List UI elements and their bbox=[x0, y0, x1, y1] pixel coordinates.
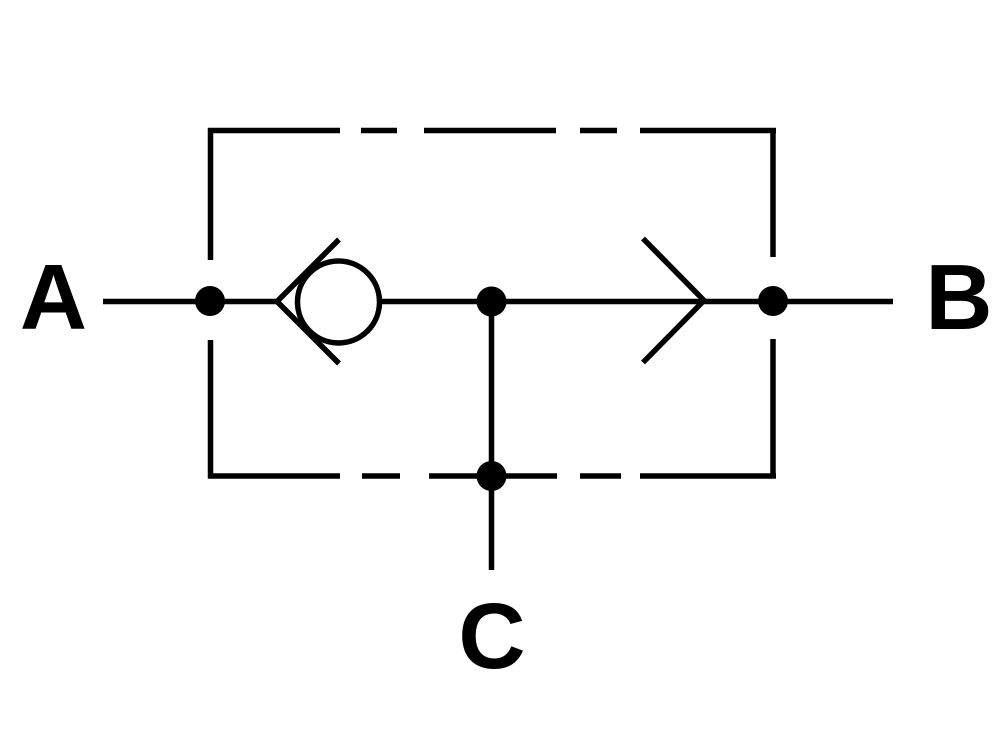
wire pilot line center node down to port C bbox=[489, 302, 495, 571]
enclosure right edge dashed bbox=[770, 128, 776, 479]
node junction at port A bbox=[195, 286, 225, 316]
node junction bottom pilot bbox=[477, 461, 507, 491]
enclosure bottom edge dashed bbox=[208, 473, 776, 479]
check valve V1 seat bbox=[277, 240, 339, 364]
svg-text:A: A bbox=[20, 245, 87, 349]
enclosure left edge dashed bbox=[208, 128, 214, 479]
enclosure top edge dashed bbox=[208, 128, 776, 134]
wire valve outlet to port B lead bbox=[382, 299, 893, 305]
flow direction arrow bbox=[643, 239, 704, 363]
wire port A lead bbox=[103, 299, 277, 305]
svg-text:B: B bbox=[925, 245, 992, 349]
svg-text:C: C bbox=[458, 584, 525, 688]
check valve V1 poppet ball bbox=[298, 261, 380, 343]
node junction center pilot tap bbox=[477, 287, 507, 317]
node junction at port B bbox=[758, 286, 788, 316]
